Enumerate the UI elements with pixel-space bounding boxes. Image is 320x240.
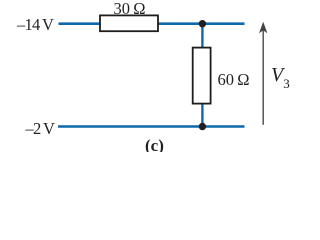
label: figure caption (c): [145, 136, 164, 156]
wire: top rail right segment from R1 past node to right end: [158, 22, 245, 25]
arrow: V3 reference arrowhead: [259, 22, 267, 34]
resistor R1 30 ohm (horizontal box in top rail): [100, 15, 158, 31]
wire: top rail left segment from -14V terminal to R1: [59, 22, 101, 25]
label: 30 ohm value of R1: [114, 0, 146, 19]
node: junction dot on bottom rail: [199, 123, 206, 130]
label: 60 ohm value of R2: [218, 70, 250, 90]
wire: vertical drop from top node into 60 ohm resistor: [201, 24, 203, 49]
resistor R2 60 ohm (vertical box): [193, 48, 211, 104]
label: -14 V node voltage: [17, 15, 53, 35]
label: V3 voltage across arrow: [271, 64, 290, 87]
wire: bottom rail from -2V terminal to right end: [58, 125, 245, 128]
node: junction dot on top rail: [199, 20, 206, 27]
arrow: V3 reference arrow shaft: [262, 31, 264, 125]
label: -2 V node voltage: [26, 119, 55, 139]
wire: vertical from 60 ohm resistor down to bottom node: [201, 103, 203, 127]
